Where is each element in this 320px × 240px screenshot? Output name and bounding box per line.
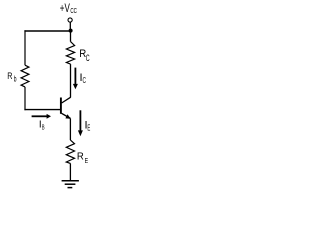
emitter wire — [69, 118, 71, 140]
left rail wire upper — [24, 30, 26, 65]
svg-text:CC: CC — [70, 7, 77, 15]
label Rc — [79, 49, 89, 64]
base wire — [24, 109, 60, 111]
terminal stem wire — [69, 22, 71, 29]
label Ib — [39, 120, 45, 132]
collector wire — [70, 64, 72, 97]
supply terminal circle — [68, 18, 72, 22]
collector lead diagonal — [62, 97, 71, 103]
label Ie — [85, 120, 91, 133]
emitter lead diagonal — [62, 113, 71, 118]
svg-text:B: B — [42, 124, 45, 131]
supply label +Vcc — [60, 3, 77, 16]
label Re — [77, 151, 89, 165]
resistor Rc — [66, 42, 74, 65]
svg-text:E: E — [87, 124, 90, 133]
arrow Ib — [32, 114, 51, 119]
top horizontal wire — [24, 30, 70, 32]
arrow Ic — [73, 68, 78, 90]
svg-text:I: I — [39, 120, 42, 131]
left rail wire lower — [24, 87, 26, 110]
svg-text:C: C — [83, 77, 87, 86]
transistor base bar — [60, 98, 62, 114]
resistor Rb — [21, 65, 29, 87]
svg-text:b: b — [14, 76, 17, 84]
resistor Re — [66, 140, 74, 163]
label Ic — [80, 72, 87, 85]
svg-text:R: R — [77, 151, 84, 162]
wire Re to ground — [69, 163, 71, 180]
label Rb — [7, 70, 16, 84]
junction dot node — [69, 29, 73, 33]
transistor Q1 — [61, 97, 71, 119]
svg-text:C: C — [86, 53, 90, 64]
emitter arrowhead — [65, 114, 70, 118]
svg-text:R: R — [7, 70, 12, 81]
ground symbol — [62, 181, 79, 188]
arrow Ie — [78, 110, 83, 136]
svg-text:+V: +V — [60, 3, 70, 16]
wire Rc top — [70, 31, 72, 42]
svg-text:E: E — [85, 157, 89, 165]
